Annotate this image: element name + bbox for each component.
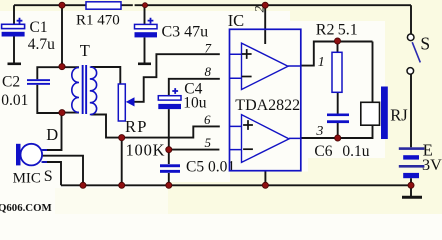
svg-text:4.7u: 4.7u <box>28 36 55 53</box>
wire switch feed <box>410 5 412 34</box>
op-amp A2 <box>230 115 301 163</box>
wire C3 leads <box>144 5 146 62</box>
svg-text:C3 47u: C3 47u <box>162 23 209 40</box>
wire C4 bottom to C5 top <box>168 109 170 164</box>
svg-text:8: 8 <box>205 64 212 79</box>
wire pin3 line <box>301 125 373 138</box>
capacitor C3 <box>135 18 209 41</box>
capacitor C1 <box>2 18 56 53</box>
svg-text:0.1u: 0.1u <box>342 143 369 160</box>
wire C4 top to pin8 <box>169 79 220 96</box>
wire pin4 to rail <box>264 171 266 186</box>
svg-text:3: 3 <box>315 124 323 139</box>
wire R2 bottom to C6 <box>337 92 339 138</box>
junction battery-rail <box>408 182 414 188</box>
svg-text:3V: 3V <box>422 156 442 174</box>
wire switch to battery <box>410 74 412 147</box>
svg-text:10u: 10u <box>183 95 207 112</box>
svg-text:6: 6 <box>204 112 211 127</box>
capacitor C6 <box>314 114 369 161</box>
svg-text:5.1: 5.1 <box>338 22 358 39</box>
svg-text:TDA2822: TDA2822 <box>235 97 300 114</box>
wire pin5 <box>169 149 220 151</box>
svg-text:0.01: 0.01 <box>1 92 28 109</box>
junction RP bottom <box>119 135 125 141</box>
wire C2 loop <box>37 67 62 113</box>
resistor R1 <box>86 2 121 9</box>
wire battery to rail and ground stub <box>410 178 412 196</box>
wire rail to C2/primary junction <box>61 5 63 67</box>
svg-text:100K: 100K <box>126 141 166 160</box>
svg-text:RP: RP <box>125 117 148 136</box>
wire RP bottom to ground rail <box>121 138 123 186</box>
wire top rail <box>14 4 411 6</box>
wire mic drain lead <box>43 113 62 150</box>
ground (C3) <box>138 62 151 65</box>
junction primary top <box>59 64 65 70</box>
wire mic middle lead <box>43 156 84 186</box>
wire RP bottom to pin6 run <box>122 126 220 137</box>
wire primary top <box>62 66 79 68</box>
svg-text:MIC: MIC <box>13 171 41 187</box>
wire C5 bottom to rail <box>168 173 170 185</box>
transformer T <box>72 67 97 115</box>
junction C6-pin3 <box>335 135 341 141</box>
op-amp A1 <box>230 43 301 89</box>
capacitor C4 <box>158 80 207 111</box>
op-amp U1 IC box <box>230 29 301 170</box>
capacitor C5 <box>160 159 235 176</box>
wire RP wiper to pin7 <box>133 54 220 102</box>
svg-text:R1 470: R1 470 <box>76 13 120 29</box>
svg-text:C6: C6 <box>314 143 332 160</box>
ground (C1) <box>8 62 22 65</box>
svg-text:Q606.COM: Q606.COM <box>0 202 52 214</box>
junction C4-C5-pin5 <box>166 147 172 153</box>
switch S <box>407 34 430 74</box>
potentiometer RP <box>118 84 165 160</box>
junction RP-rail <box>119 182 125 188</box>
junction primary bottom <box>59 110 65 116</box>
wire speaker top lead <box>372 42 374 103</box>
speaker RJ <box>361 87 409 140</box>
junction rail-C3 <box>143 3 148 8</box>
resistor R2 <box>332 52 342 92</box>
ground (battery) <box>402 196 422 199</box>
svg-text:S: S <box>420 34 430 54</box>
junction pin4-rail <box>262 182 268 188</box>
junction C5-rail <box>166 182 172 188</box>
svg-text:S: S <box>44 168 53 185</box>
wire primary bottom <box>62 112 79 114</box>
svg-text:T: T <box>80 41 90 60</box>
svg-text:D: D <box>46 125 58 144</box>
wire secondary top to RP <box>91 67 120 84</box>
microphone MIC <box>13 144 47 187</box>
wire pin1 to R2 top run <box>301 42 373 66</box>
junction rail-pin2 <box>262 2 268 8</box>
wire R2 top lead <box>337 42 339 53</box>
junction mic source-rail <box>80 182 86 188</box>
wire C1 leads <box>13 5 15 62</box>
junction R2 top <box>334 38 340 44</box>
svg-text:5: 5 <box>205 135 212 150</box>
battery E <box>399 140 442 178</box>
svg-text:C1: C1 <box>30 19 48 36</box>
svg-text:R2: R2 <box>316 22 335 39</box>
svg-text:RJ: RJ <box>390 106 408 125</box>
svg-text:1: 1 <box>318 55 325 70</box>
svg-text:7: 7 <box>205 41 212 56</box>
svg-text:C2: C2 <box>2 74 20 91</box>
junction rail-C1 <box>59 2 65 8</box>
wire bottom rail <box>61 184 411 186</box>
svg-text:IC: IC <box>228 11 245 30</box>
wire mic source lead <box>43 162 62 185</box>
wire pin2 <box>264 5 266 44</box>
svg-text:C5 0.01: C5 0.01 <box>186 159 235 176</box>
capacitor C2 <box>1 74 50 110</box>
wire secondary bottom <box>91 115 122 138</box>
